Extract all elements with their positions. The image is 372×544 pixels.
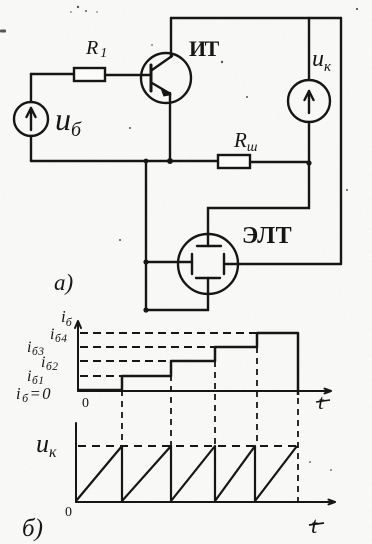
graph2 y-axis xyxy=(75,423,77,502)
wire uk branch top xyxy=(308,18,310,80)
svg-text:0: 0 xyxy=(65,505,72,520)
transistor collector diagonal xyxy=(152,56,172,70)
graph2 axes xyxy=(76,423,335,504)
CRT top plate xyxy=(197,245,221,247)
transistor emitter diagonal xyxy=(152,83,169,93)
wire bottom rail left of Rsh xyxy=(31,160,218,162)
CRT tube ELT circle xyxy=(178,234,238,294)
graph1 dashed level ib2 xyxy=(80,360,170,362)
wire top rail xyxy=(171,17,341,19)
wire uk branch bottom xyxy=(308,122,310,163)
svg-text:а): а) xyxy=(54,270,73,295)
graph1 dashed drop t1 xyxy=(121,379,123,446)
wire base row left xyxy=(31,73,74,75)
svg-text:0: 0 xyxy=(82,396,89,411)
graph2 sawtooth waveform uk xyxy=(76,446,297,501)
wire left drop vertical xyxy=(145,161,147,310)
graph1 dashed drop t5 xyxy=(297,398,299,501)
wire collector to top rail xyxy=(170,18,172,57)
node junction emitter row left xyxy=(144,159,149,164)
graph1 axes xyxy=(75,321,331,393)
source uB vertical bottom xyxy=(30,136,32,161)
current source UK circle xyxy=(288,80,330,122)
graph2 dashed level uk max xyxy=(78,445,296,447)
wire CRT left plate to left drop xyxy=(146,261,192,263)
transistor IT circle xyxy=(141,53,191,103)
transistor emitter arrowhead xyxy=(160,87,172,97)
graph1 dashed level ib4 xyxy=(80,332,256,334)
resistor R1 body xyxy=(74,68,105,81)
node junction emitter xyxy=(167,158,173,164)
svg-text:ИТ: ИТ xyxy=(189,36,220,61)
graph2 x-axis xyxy=(76,500,335,505)
graph1 dashed drop t3 xyxy=(214,350,216,446)
current source UB arrow xyxy=(27,108,36,130)
wire emitter down to bottom rail xyxy=(169,93,171,161)
svg-text:t: t xyxy=(311,513,318,538)
svg-text:iб=0: iб=0 xyxy=(16,384,52,405)
graph1 dashed drop t4 xyxy=(256,336,258,446)
resistor Rsh body xyxy=(218,155,250,168)
graph1 dashed level ib1 xyxy=(80,375,121,377)
transistor base bar xyxy=(150,65,153,91)
wire right rail xyxy=(340,18,342,264)
svg-text:ЭЛТ: ЭЛТ xyxy=(242,223,292,249)
graph1 x-axis xyxy=(78,389,331,394)
current source UK arrow xyxy=(305,91,314,113)
current source UB circle xyxy=(14,102,48,136)
graph1 dashed level ib3 xyxy=(80,346,214,348)
wire right rail to CRT right plate xyxy=(224,263,341,265)
wire uk node down to CRT top plate xyxy=(208,163,309,246)
wire R1 to transistor base xyxy=(105,74,151,76)
svg-text:б): б) xyxy=(22,515,43,542)
CRT bottom plate xyxy=(196,277,220,279)
wire bottom rail right of Rsh xyxy=(250,161,309,163)
wire CRT bottom plate down and around xyxy=(146,278,208,310)
source uB vertical top xyxy=(30,74,32,102)
graph1 dashed drop t2 xyxy=(170,364,172,446)
graph1 y-axis xyxy=(75,321,81,391)
CRT left plate xyxy=(191,254,193,274)
CRT right plate xyxy=(223,254,225,274)
node junction left drop tap xyxy=(143,259,148,264)
node corner bottom left xyxy=(143,307,148,312)
node junction uk / Rsh xyxy=(306,160,311,165)
graph1 staircase waveform ib xyxy=(78,333,298,395)
